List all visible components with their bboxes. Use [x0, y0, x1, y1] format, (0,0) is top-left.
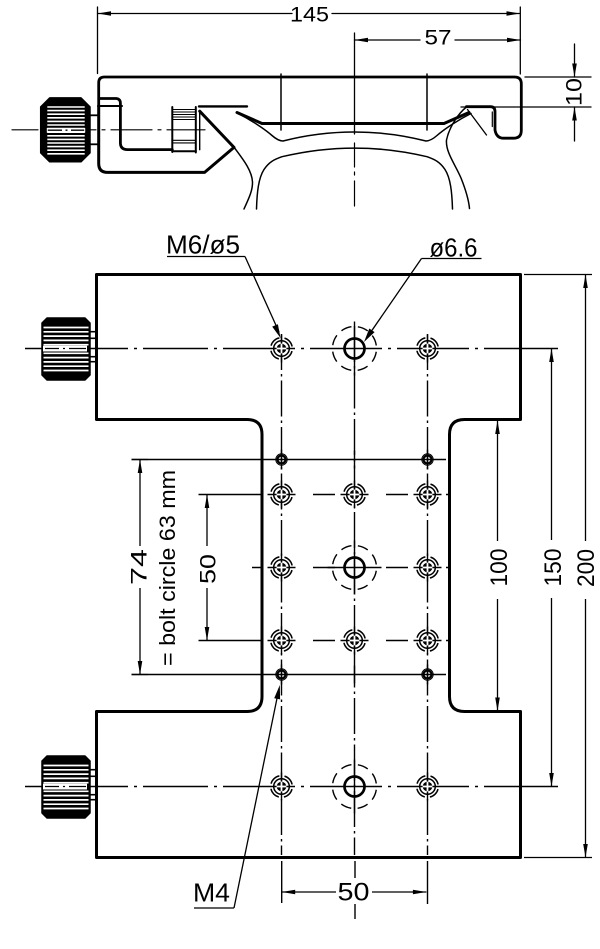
dim line 50 left: [206, 495, 208, 547]
column centerline right (dash-dot): [427, 334, 429, 855]
svg-text:200: 200: [573, 549, 600, 587]
hole M4 upper-left: [276, 454, 287, 465]
centerline top row (dash-dot): [25, 348, 558, 350]
svg-text:74: 74: [127, 549, 152, 585]
plan body outline: [97, 275, 521, 858]
svg-text:145: 145: [290, 4, 329, 27]
dim 10 extension lines: [525, 76, 591, 78]
column centerline center (dash-dot): [354, 326, 356, 855]
hole M6/ø5 top-left: [271, 338, 293, 360]
hole M6 row1-left: [271, 484, 293, 506]
plate outline: [99, 77, 522, 138]
ext line 200 bottom: [524, 857, 592, 859]
hole M6 top-right: [417, 338, 439, 360]
dimension line 145: [98, 13, 293, 15]
svg-text:M6/ø5: M6/ø5: [166, 230, 240, 260]
hole M4 lower-left: [276, 669, 287, 680]
bottom extension line right column: [427, 861, 429, 904]
dim line 150: [551, 349, 553, 541]
bore arc and leg inner edges: [257, 148, 453, 209]
ring outer surface wavy line: [238, 114, 471, 142]
hole M4 upper-right: [422, 454, 433, 465]
svg-text:100: 100: [486, 549, 513, 587]
threaded bushing: [172, 107, 196, 153]
label M4 leader: [194, 907, 234, 909]
svg-text:50: 50: [338, 879, 370, 907]
side view knurled knob: [41, 98, 99, 162]
hole M6 row3-center: [344, 630, 366, 652]
hole M6 row1-right: [417, 484, 439, 506]
hole ø6.6 bottom-center: [333, 765, 377, 809]
row line lower M4: [132, 674, 447, 676]
dimension line 57: [355, 39, 421, 41]
knob bottom (plan): [42, 756, 97, 818]
ext line 200 top: [524, 274, 592, 276]
hole axis line right (x=427): [426, 74, 428, 130]
dim line 100: [497, 421, 499, 542]
svg-text:= bolt circle 63 mm: = bolt circle 63 mm: [155, 470, 180, 666]
hole M6 row1-center: [344, 484, 366, 506]
svg-text:ø6.6: ø6.6: [430, 233, 478, 263]
plate bottom-left step: [98, 105, 122, 107]
side knob shaft: [90, 115, 99, 144]
hole M6 bottom-left: [271, 776, 293, 798]
saddle top chord (thick): [237, 113, 469, 124]
dim line 50 bottom: [282, 891, 336, 893]
row centerline grid row3: [199, 640, 451, 642]
hook inner vertical: [491, 112, 493, 127]
hole M4 lower-right: [422, 669, 433, 680]
bottom extension line center column: [354, 861, 356, 919]
right leg outer edge: [446, 107, 469, 209]
text 50 bottom: [337, 878, 371, 904]
knob top (plan): [42, 318, 97, 380]
svg-text:50: 50: [196, 554, 221, 584]
svg-text:150: 150: [540, 549, 567, 587]
plate step line left: [100, 99, 173, 150]
horizontal centerline of screw: [12, 129, 205, 131]
svg-text:M4: M4: [193, 878, 230, 908]
hole axis line left (x=281): [280, 74, 282, 130]
svg-text:57: 57: [425, 27, 452, 50]
center axis dash-dot below plate: [354, 143, 356, 206]
hole cross ticks vertical: [282, 322, 428, 814]
centerline middle row (dash-dot): [252, 567, 450, 569]
hole cross ticks horizontal: [268, 495, 442, 641]
hole M6 bottom-right: [417, 776, 439, 798]
plate bottom edge right segment: [461, 106, 591, 108]
left leg outer edge: [234, 147, 253, 210]
hook inner diagonal: [468, 110, 487, 136]
dim 10 arrows: [574, 44, 576, 77]
label ø6.6: [364, 259, 482, 343]
clamp outer outline: [99, 106, 234, 172]
plate bottom edge left segment: [199, 105, 247, 107]
dim 145/57 extension line right: [519, 7, 521, 74]
hole M6 row3-right: [417, 630, 439, 652]
dim 145 extension line left: [97, 7, 99, 74]
centerline bottom row (dash-dot): [25, 786, 558, 788]
hole ø6.6 top-center: [333, 327, 377, 371]
dim line 200: [585, 275, 587, 542]
svg-text:10: 10: [562, 78, 587, 106]
column centerline left (dash-dot): [281, 334, 283, 855]
dim line 74: [139, 460, 141, 547]
hole M6 row2-right: [417, 557, 439, 579]
label M6/ø5: [167, 257, 281, 339]
ext line 74 bottom: [132, 674, 149, 676]
hole M6 row2-left: [271, 557, 293, 579]
dim 57 extension line left (hole axis): [354, 33, 356, 134]
bottom extension line left column: [281, 861, 283, 903]
hole M6 row3-left: [271, 630, 293, 652]
clamp inner edge: [199, 111, 201, 150]
hole ø6.6 grid-center: [333, 546, 377, 590]
bushing thread lines: [172, 110, 196, 143]
row line upper M4: [132, 459, 447, 461]
ext line 74 top: [132, 459, 149, 461]
row centerline grid row1: [199, 494, 451, 496]
